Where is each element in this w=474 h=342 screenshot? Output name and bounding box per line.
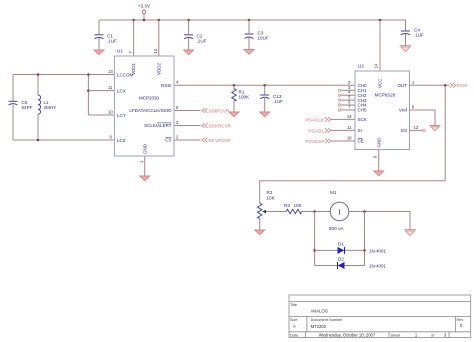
- svg-text:MT2202: MT2202: [311, 324, 327, 329]
- node junction L1 bottom: [37, 139, 40, 142]
- svg-text:10: 10: [108, 109, 113, 114]
- wire LCY: [88, 114, 114, 116]
- wire OUT feedback down-left: [260, 85, 446, 203]
- svg-text:M1: M1: [330, 190, 337, 195]
- svg-text:GND: GND: [142, 143, 147, 154]
- node junction OUT: [444, 84, 447, 87]
- wire R2 bottom to ground: [259, 218, 261, 230]
- svg-text:11: 11: [108, 85, 113, 90]
- wire power rail: [99, 19, 406, 21]
- power +3.3V: [138, 4, 151, 21]
- capacitor C4: [401, 28, 424, 46]
- capacitor C2: [184, 20, 207, 50]
- node RSSI off-page output: [450, 83, 467, 88]
- capacitor C5: [9, 100, 33, 110]
- svg-text:OUT: OUT: [398, 83, 408, 88]
- node junction C2 rail: [187, 19, 190, 22]
- node junction diodes right top: [363, 210, 366, 213]
- svg-text:.1UF: .1UF: [273, 99, 283, 104]
- ground C13: [260, 112, 270, 117]
- svg-text:Size: Size: [290, 318, 297, 322]
- svg-text:7: 7: [128, 51, 133, 54]
- meter M1: [329, 190, 349, 231]
- wire U1 GND pin: [144, 156, 146, 176]
- svg-text:ANALOG: ANALOG: [311, 309, 328, 314]
- wire LC bus vertical: [87, 75, 89, 116]
- wire diode right vertical: [364, 212, 366, 266]
- wire R3 to M1: [302, 211, 331, 213]
- svg-text:500 uA: 500 uA: [329, 226, 344, 231]
- svg-text:VCC: VCC: [378, 78, 383, 88]
- svg-text:of: of: [431, 334, 435, 338]
- svg-text:SI: SI: [358, 128, 362, 133]
- svg-text:LCZ: LCZ: [117, 138, 126, 143]
- node junction power rail: [143, 19, 146, 22]
- pin 5 CH3: [338, 99, 340, 101]
- svg-text:14: 14: [374, 63, 379, 68]
- svg-text:.1UF: .1UF: [107, 39, 117, 44]
- svg-text:11: 11: [347, 125, 352, 130]
- resistor R3: [284, 203, 302, 214]
- resistor R1: [232, 85, 250, 112]
- inductor L1: [38, 75, 56, 141]
- wire U2 GND pin: [378, 150, 380, 172]
- ground U1: [140, 176, 150, 181]
- ground M1 (outline): [404, 230, 416, 236]
- wire rail corner to C4: [405, 20, 407, 31]
- svg-text:2MHY: 2MHY: [44, 105, 57, 110]
- svg-text:CE: CE: [358, 139, 364, 144]
- svg-text:LCCOM: LCCOM: [117, 72, 134, 77]
- ground U2: [374, 171, 384, 176]
- svg-text:.1UF: .1UF: [197, 39, 207, 44]
- ground C2: [184, 50, 194, 55]
- svg-text:Sheet: Sheet: [391, 334, 402, 338]
- svg-text:RCVRCS#: RCVRCS#: [209, 138, 231, 143]
- pin 7 CH5: [338, 109, 340, 111]
- svg-text:D1: D1: [338, 242, 344, 247]
- svg-text:1: 1: [139, 160, 144, 163]
- svg-text:VDD2: VDD2: [156, 62, 161, 75]
- diode D1: [315, 242, 387, 254]
- capacitor C13: [260, 85, 283, 112]
- capacitor C1: [95, 20, 118, 50]
- node junction diodes left top: [313, 210, 316, 213]
- ground C4 (outline): [400, 46, 412, 52]
- title block: [289, 295, 471, 338]
- svg-text:SCK: SCK: [358, 117, 367, 122]
- svg-text:10: 10: [347, 136, 352, 141]
- svg-text:3: 3: [176, 120, 179, 125]
- svg-text:100: 100: [294, 203, 302, 208]
- svg-text:CH5: CH5: [358, 108, 367, 113]
- svg-text:R2: R2: [267, 190, 273, 195]
- ground R2: [255, 230, 265, 235]
- svg-text:SCKRCVR: SCKRCVR: [209, 123, 232, 128]
- svg-text:14: 14: [153, 48, 158, 53]
- wire M1 right to ground: [349, 212, 410, 230]
- svg-text:MCP6S26: MCP6S26: [375, 92, 396, 97]
- resistor R2 potentiometer: [258, 190, 287, 218]
- ground C3: [244, 50, 254, 55]
- svg-text:GND: GND: [377, 137, 382, 148]
- svg-text:SDIRCVR: SDIRCVR: [209, 108, 230, 113]
- svg-text:+3.3V: +3.3V: [138, 4, 151, 9]
- node SDIRCVR off-page: [202, 108, 230, 113]
- op-amp U2 MCP6S26: [338, 20, 425, 158]
- svg-text:D2: D2: [338, 257, 344, 262]
- wire OUT net: [410, 84, 450, 86]
- wire SDIO: [174, 110, 201, 112]
- node junction C13: [263, 84, 266, 87]
- svg-text:RSSI: RSSI: [161, 83, 172, 88]
- svg-text:Date:: Date:: [290, 334, 299, 338]
- svg-text:8: 8: [412, 105, 415, 110]
- ground Vref (outline): [430, 126, 441, 131]
- svg-text:R3: R3: [284, 203, 290, 208]
- svg-text:Vref: Vref: [399, 108, 408, 113]
- node junction VDD2 rail: [158, 19, 161, 22]
- capacitor C3 (polarized): [245, 20, 269, 50]
- ground C1: [94, 50, 104, 55]
- node junction L1 top: [37, 73, 40, 76]
- svg-text:SCLK/ALERT: SCLK/ALERT: [144, 123, 172, 128]
- svg-text:CS: CS: [165, 138, 171, 143]
- svg-text:LFDATA/CCLK/SDIO: LFDATA/CCLK/SDIO: [129, 108, 172, 113]
- svg-text:I: I: [338, 207, 341, 216]
- svg-text:4: 4: [176, 80, 179, 85]
- wire SCLK: [174, 125, 201, 127]
- svg-text:0: 0: [460, 323, 463, 328]
- svg-text:PGACLK: PGACLK: [305, 117, 325, 122]
- node junction LCX: [87, 89, 90, 92]
- svg-text:Wednesday, October 10, 2007: Wednesday, October 10, 2007: [319, 333, 376, 338]
- svg-text:2: 2: [176, 134, 179, 139]
- wire LCX: [88, 90, 114, 92]
- node PGACS# off-page: [305, 139, 355, 144]
- pin 3 CH1: [338, 89, 340, 91]
- svg-text:RSSI: RSSI: [457, 83, 468, 88]
- svg-text:SO: SO: [400, 128, 407, 133]
- svg-text:1N-4001: 1N-4001: [369, 264, 386, 269]
- svg-text:13: 13: [108, 69, 113, 74]
- svg-text:Rev: Rev: [457, 318, 464, 322]
- wire diode left vertical: [314, 212, 316, 266]
- node junction R1: [233, 84, 236, 87]
- node junction D1 left: [313, 249, 316, 252]
- svg-text:12: 12: [414, 125, 419, 130]
- node SCKRCVR off-page: [202, 123, 232, 128]
- node junction C3 rail: [248, 19, 251, 22]
- pin 4 CH2: [338, 94, 340, 96]
- wire Vref to ground: [410, 110, 436, 125]
- node junction U2 VCC rail: [379, 19, 382, 22]
- wire tank bottom (LCZ net): [13, 139, 114, 141]
- svg-text:10K: 10K: [267, 196, 276, 201]
- svg-text:1N-4001: 1N-4001: [369, 249, 386, 254]
- svg-text:U2: U2: [358, 64, 364, 69]
- svg-text:3: 3: [444, 333, 447, 338]
- svg-text:MCP2030: MCP2030: [139, 96, 160, 101]
- diode D2: [315, 257, 387, 270]
- svg-text:.1UF: .1UF: [414, 33, 424, 38]
- svg-text:1: 1: [415, 333, 418, 338]
- svg-text:100K: 100K: [239, 95, 251, 100]
- ground R1: [229, 112, 239, 117]
- node junction D1 right: [363, 249, 366, 252]
- node PGAD1 off-page: [308, 128, 355, 133]
- node PGACLK off-page: [305, 117, 355, 122]
- svg-text:10UF: 10UF: [258, 36, 269, 41]
- svg-text:U1: U1: [117, 49, 123, 54]
- pin 6 CH4: [338, 104, 340, 106]
- node junction VDD1 rail: [132, 19, 135, 22]
- svg-text:PGAD1: PGAD1: [308, 128, 324, 133]
- node junction LCCOM: [87, 73, 90, 76]
- svg-text:Document Number: Document Number: [311, 318, 344, 322]
- wire CS: [174, 139, 201, 141]
- svg-text:Title: Title: [290, 303, 297, 307]
- svg-text:A: A: [293, 324, 296, 329]
- svg-text:13: 13: [347, 114, 352, 119]
- op-amp U1 MCP2030: [108, 20, 179, 163]
- svg-text:1: 1: [412, 80, 415, 85]
- svg-text:PGACS#: PGACS#: [305, 139, 324, 144]
- svg-text:LCY: LCY: [117, 113, 126, 118]
- svg-text:62PF: 62PF: [22, 105, 33, 110]
- node RCVRCS# off-page: [202, 138, 231, 143]
- wire tank top (LCCOM net): [12, 105, 14, 140]
- svg-text:6: 6: [176, 105, 179, 110]
- svg-text:9: 9: [373, 155, 378, 158]
- wire RSSI net U1 to U2: [174, 84, 355, 86]
- svg-text:LCX: LCX: [117, 88, 126, 93]
- svg-text:9: 9: [110, 134, 113, 139]
